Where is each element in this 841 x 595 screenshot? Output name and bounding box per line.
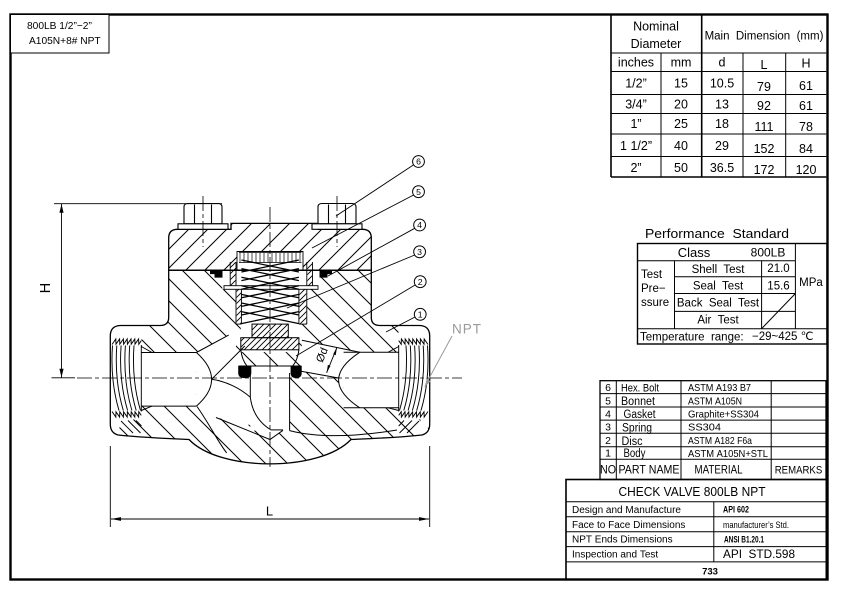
bore and passage lines	[142, 335, 399, 453]
left seat mouth arc	[196, 353, 211, 407]
svg-text:2”: 2”	[630, 161, 641, 175]
svg-text:733: 733	[702, 567, 718, 578]
disc (item 2)	[239, 324, 302, 366]
svg-text:MPa: MPa	[799, 277, 823, 289]
left wedge	[196, 332, 270, 430]
parts list table	[600, 381, 826, 480]
leader lines	[287, 165, 415, 356]
spring (item 3)	[241, 260, 299, 324]
center cavity	[222, 265, 320, 289]
spring cage	[224, 262, 318, 324]
svg-text:800LB: 800LB	[751, 246, 786, 260]
svg-text:1 1/2”: 1 1/2”	[620, 139, 652, 153]
right NPT thread detail	[388, 339, 428, 417]
svg-text:Gasket: Gasket	[624, 409, 657, 421]
svg-text:NPT Ends Dimensions: NPT Ends Dimensions	[572, 535, 673, 546]
svg-text:152: 152	[754, 142, 775, 156]
left NPT thread detail	[112, 339, 152, 417]
svg-text:NO: NO	[600, 462, 616, 476]
inner wall V lines	[216, 418, 283, 440]
svg-text:Nominal: Nominal	[633, 20, 679, 34]
svg-text:Disc: Disc	[622, 436, 643, 448]
svg-text:Seal Test: Seal Test	[693, 281, 744, 293]
svg-text:Performance Standard: Performance Standard	[645, 226, 789, 241]
svg-text:Bonnet: Bonnet	[621, 396, 656, 408]
svg-text:800LB 1/2”−2”: 800LB 1/2”−2”	[27, 21, 92, 32]
svg-text:Spring: Spring	[622, 422, 652, 434]
svg-text:40: 40	[674, 139, 688, 153]
svg-text:mm: mm	[671, 56, 692, 70]
svg-text:29: 29	[715, 139, 729, 153]
svg-text:Shell Test: Shell Test	[692, 264, 746, 276]
body (item 1) hatch fill	[110, 270, 429, 464]
svg-text:NPT: NPT	[452, 322, 482, 337]
svg-text:4: 4	[417, 220, 422, 230]
svg-text:92: 92	[757, 99, 771, 113]
svg-text:CHECK VALVE 800LB NPT: CHECK VALVE 800LB NPT	[619, 484, 766, 499]
svg-text:6: 6	[416, 157, 421, 167]
svg-text:MATERIAL: MATERIAL	[695, 462, 743, 476]
svg-text:3: 3	[605, 422, 611, 434]
gaskets (item 4) black	[210, 271, 223, 278]
dimension table top-right	[611, 15, 826, 178]
svg-text:API STD.598: API STD.598	[723, 547, 795, 561]
svg-text:Diameter: Diameter	[631, 37, 682, 51]
svg-text:manufacturer’s Std.: manufacturer’s Std.	[723, 520, 789, 531]
svg-text:Test: Test	[641, 269, 663, 281]
svg-text:ASTM A105N: ASTM A105N	[688, 396, 742, 408]
svg-text:Air Test: Air Test	[697, 315, 739, 327]
svg-text:REMARKS: REMARKS	[775, 464, 823, 476]
svg-text:172: 172	[754, 163, 775, 177]
right bore lines	[344, 351, 399, 353]
centerlines	[77, 196, 462, 467]
svg-text:Graphite+SS304: Graphite+SS304	[688, 409, 759, 421]
svg-text:1: 1	[418, 309, 423, 319]
svg-text:Body: Body	[624, 448, 646, 460]
svg-text:ANSI B1.20.1: ANSI B1.20.1	[724, 535, 764, 545]
svg-text:6: 6	[605, 382, 611, 394]
svg-text:120: 120	[796, 163, 817, 177]
balloons 1-6	[413, 156, 427, 321]
svg-text:Back Seal Test: Back Seal Test	[677, 298, 760, 310]
svg-text:2: 2	[605, 435, 611, 447]
svg-text:2: 2	[418, 277, 423, 287]
svg-text:H: H	[801, 57, 810, 71]
svg-text:79: 79	[757, 80, 771, 94]
svg-text:1”: 1”	[630, 117, 641, 131]
svg-text:inches: inches	[618, 56, 654, 70]
channel	[250, 366, 289, 431]
svg-text:20: 20	[674, 98, 688, 112]
svg-text:Main Dimension (mm): Main Dimension (mm)	[705, 31, 824, 43]
svg-text:61: 61	[799, 79, 813, 93]
svg-text:18: 18	[715, 117, 729, 131]
svg-text:61: 61	[799, 99, 813, 113]
svg-text:1/2”: 1/2”	[625, 77, 647, 91]
svg-text:ssure: ssure	[641, 297, 669, 309]
svg-text:15: 15	[674, 77, 688, 91]
VALVE DRAWING	[38, 156, 482, 527]
svg-text:50: 50	[674, 161, 688, 175]
right bore	[344, 352, 399, 408]
svg-text:Inspection and Test: Inspection and Test	[572, 550, 658, 561]
svg-text:5: 5	[416, 187, 421, 197]
svg-text:ASTM A182 F6a: ASTM A182 F6a	[688, 435, 752, 447]
right thread zone	[399, 326, 430, 434]
left thread zone	[110, 326, 141, 434]
svg-text:H: H	[38, 283, 54, 293]
svg-text:Temperature range:: Temperature range:	[640, 332, 744, 344]
svg-text:36.5: 36.5	[710, 161, 734, 175]
svg-text:Class: Class	[678, 245, 711, 260]
seat diameter dimension	[327, 347, 337, 373]
svg-text:Hex. Bolt: Hex. Bolt	[621, 383, 659, 395]
svg-text:PART NAME: PART NAME	[619, 462, 680, 476]
channel walls	[250, 373, 270, 430]
svg-text:L: L	[761, 58, 768, 72]
svg-text:Pre−: Pre−	[641, 283, 666, 295]
svg-text:3/4”: 3/4”	[625, 98, 647, 112]
svg-text:A105N+8# NPT: A105N+8# NPT	[29, 36, 101, 47]
svg-text:13: 13	[715, 98, 729, 112]
right fan passage	[301, 340, 360, 378]
hex bolts (item 6)	[178, 204, 228, 230]
svg-text:10.5: 10.5	[710, 77, 734, 91]
svg-text:21.0: 21.0	[767, 263, 789, 275]
bonnet (item 5)	[169, 223, 372, 270]
H dimension	[54, 204, 222, 378]
extra hatch below threads	[121, 421, 419, 434]
svg-text:4: 4	[605, 409, 611, 421]
svg-text:111: 111	[754, 120, 773, 134]
svg-text:5: 5	[605, 396, 611, 408]
svg-text:84: 84	[799, 142, 813, 156]
svg-text:ASTM A193 B7: ASTM A193 B7	[688, 382, 751, 394]
disc seal rings black	[238, 366, 251, 378]
svg-text:Design and Manufacture: Design and Manufacture	[572, 505, 681, 516]
svg-text:3: 3	[417, 247, 422, 257]
svg-text:SS304: SS304	[688, 422, 721, 434]
svg-text:15.6: 15.6	[767, 281, 789, 293]
body outline stroke	[110, 270, 429, 464]
left bore	[142, 353, 197, 407]
white cutouts of body	[110, 265, 429, 440]
bottom title block	[566, 480, 826, 580]
svg-text:−29~425 ℃: −29~425 ℃	[752, 331, 814, 343]
spring retainer thread	[239, 253, 302, 263]
svg-text:d: d	[719, 56, 726, 70]
svg-text:L: L	[266, 504, 273, 519]
svg-text:1: 1	[605, 448, 611, 460]
svg-text:78: 78	[799, 120, 813, 134]
svg-text:25: 25	[674, 117, 688, 131]
svg-text:ASTM A105N+STL: ASTM A105N+STL	[688, 448, 768, 460]
L dimension	[110, 446, 429, 527]
svg-text:Face to Face Dimensions: Face to Face Dimensions	[572, 520, 685, 531]
title label box top-left	[11, 15, 110, 54]
svg-text:API 602: API 602	[723, 505, 749, 515]
